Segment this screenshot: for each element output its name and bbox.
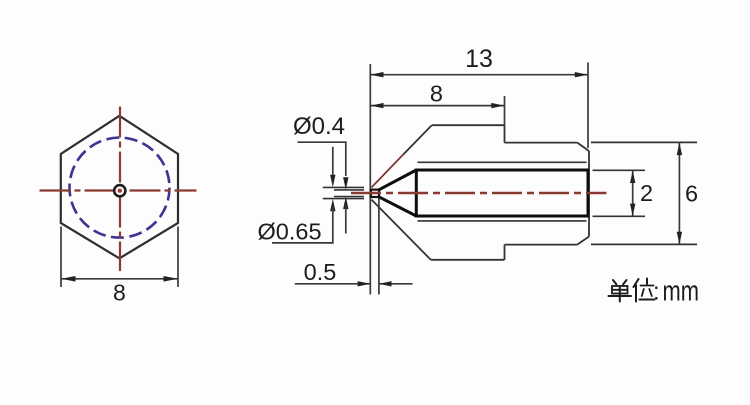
orifice rectangle (0.4 bore tip) <box>371 190 379 197</box>
arrow 6 top <box>677 143 682 156</box>
Ø0.4 extension lines (orifice bore) <box>334 189 364 191</box>
dimension 13 line <box>370 74 588 76</box>
extension line at cone start (0.5) <box>378 198 380 295</box>
svg-text:6: 6 <box>685 181 698 207</box>
dimension 0.5 left tail + arrow <box>295 283 370 285</box>
right end face <box>588 151 590 237</box>
dimension 2 extension lines <box>593 169 646 171</box>
extension line for 8 <box>504 96 506 125</box>
center orifice ring <box>114 185 125 196</box>
centerline horizontal (red) <box>40 189 197 191</box>
units note: 单位: mm <box>609 279 655 302</box>
bore cone upper (bold) <box>379 170 416 190</box>
dimension 8 extension line right <box>177 227 179 288</box>
svg-text:8: 8 <box>113 280 126 306</box>
hex section bottom edge <box>431 259 505 261</box>
svg-text:8: 8 <box>430 81 443 107</box>
Ø0.65 bottom arrow (up) <box>330 199 335 212</box>
dimension 8 line (right view) <box>370 105 504 107</box>
centerline vertical (red) <box>119 107 121 272</box>
inner thread line top <box>418 161 587 163</box>
step up to shank (bottom) <box>504 245 506 260</box>
outer cone upper line (red part near tip) <box>372 155 404 188</box>
inner thread line bottom <box>418 220 587 222</box>
bore top wall (bold) <box>416 169 588 172</box>
bore cone base vertical (bold) <box>415 169 418 218</box>
svg-text:Ø0.4: Ø0.4 <box>293 113 345 140</box>
step down to shank (top) <box>504 125 506 142</box>
arrow 13 left <box>371 72 384 77</box>
dimension 6 extension lines <box>591 141 697 143</box>
center orifice red dot <box>118 189 122 193</box>
svg-text:13: 13 <box>465 45 493 73</box>
svg-text:0.5: 0.5 <box>304 259 337 285</box>
Ø0.65 extension lines (tip outer) <box>323 186 364 188</box>
arrow 13 right <box>575 72 588 77</box>
extension line at tip (long vertical) <box>369 64 371 295</box>
glyph 位 <box>634 279 639 287</box>
arrow left <box>61 276 75 282</box>
arrow 8 right <box>491 103 504 108</box>
dimension 6 line <box>678 142 680 244</box>
extension line right end (for 13) <box>587 63 589 149</box>
hexagon body outline <box>61 116 178 259</box>
arrow 6 bottom <box>677 232 682 245</box>
shank top edge <box>505 142 578 144</box>
Ø0.4 top arrow (down) <box>343 177 348 190</box>
shank bottom edge <box>505 244 578 246</box>
bore right end (bold) <box>587 169 590 218</box>
chamfer top right <box>577 143 589 151</box>
Ø0.4 leader <box>298 142 346 176</box>
Ø0.65 top arrow (down) <box>330 175 335 188</box>
dimension 8 extension line left <box>60 227 62 288</box>
svg-text:Ø0.65: Ø0.65 <box>258 219 322 245</box>
dimension 0.5 right tail + arrow <box>379 283 412 285</box>
Ø0.65 leader <box>272 207 333 243</box>
arrow 2 bottom <box>630 204 635 217</box>
outer cone lower line <box>372 200 431 260</box>
Ø0.65 top tail <box>332 147 334 178</box>
dimension 8 line <box>61 278 178 280</box>
svg-text:2: 2 <box>640 180 653 206</box>
arrow right <box>164 276 178 282</box>
red axis centerline <box>351 192 607 194</box>
outer cone upper line (dark part) <box>403 125 432 155</box>
arrow 2 top <box>630 171 635 184</box>
arrow 8 left <box>371 103 384 108</box>
svg-text:mm: mm <box>663 276 700 308</box>
glyph 单 <box>613 280 617 285</box>
Ø0.4 bottom arrow (up) <box>343 197 348 210</box>
bore bottom wall (bold) <box>416 215 588 218</box>
hex section top edge <box>432 124 505 126</box>
inscribed circle (dashed, blue) <box>70 138 170 238</box>
svg-text::: : <box>653 279 660 306</box>
bore cone lower (bold) <box>379 197 416 216</box>
dimension 2 line <box>632 170 634 216</box>
Ø0.4 bottom tail <box>345 205 347 234</box>
chamfer bottom right <box>577 237 589 245</box>
